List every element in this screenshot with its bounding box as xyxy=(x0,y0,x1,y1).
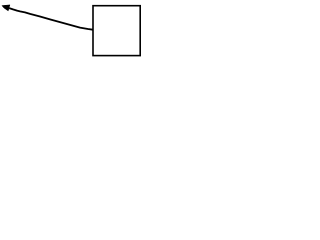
arrowhead xyxy=(2,5,10,11)
wire xyxy=(9,8,93,30)
box xyxy=(93,6,140,56)
